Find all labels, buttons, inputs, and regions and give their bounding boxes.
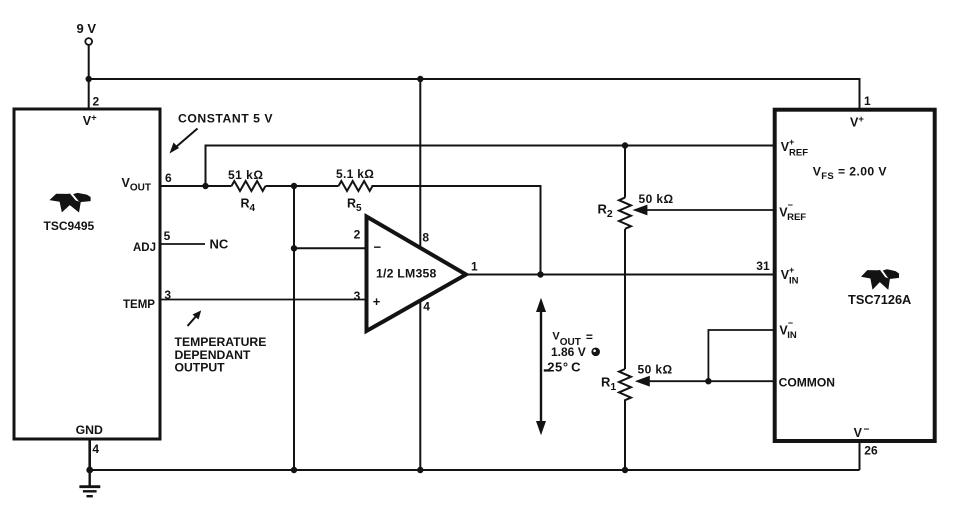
node VOUT riser junction [202, 183, 208, 189]
svg-text:51 kΩ: 51 kΩ [228, 168, 263, 182]
wire 9V to top rail [88, 45, 90, 79]
wire inverting node to ground rail [293, 186, 295, 470]
svg-text:8: 8 [422, 230, 429, 244]
svg-text:2: 2 [354, 228, 361, 242]
svg-text:1.86 V: 1.86 V [551, 345, 586, 359]
node ground junction [86, 467, 93, 474]
wire to op-amp pin 2 [294, 247, 367, 249]
svg-text:31: 31 [756, 259, 770, 273]
label TEMPERATURE DEPENDANT OUTPUT [175, 335, 267, 375]
ground [79, 470, 100, 496]
measurement arrow VOUT [536, 298, 546, 436]
svg-text:4: 4 [92, 442, 99, 456]
potentiometer R1 50k [601, 363, 775, 401]
node feedback output junction [537, 271, 543, 277]
svg-text:OUTPUT: OUTPUT [175, 361, 226, 375]
IC U1 TSC9495 [14, 109, 160, 439]
node R4 R5 junction [291, 183, 297, 189]
wire bottom ground rail [90, 469, 860, 471]
svg-text:CONSTANT 5 V: CONSTANT 5 V [178, 112, 273, 126]
svg-text:TEMPERATURE: TEMPERATURE [175, 335, 267, 349]
wire top rail [89, 79, 860, 110]
arrow to constant 5V node [170, 129, 198, 154]
svg-text:TEMP: TEMP [123, 299, 155, 311]
node VIN- COMMON junction [705, 378, 711, 384]
wire pin 2 of U1 [88, 79, 90, 110]
wire VOUT lead [161, 185, 232, 187]
wire R2 R1 chain [624, 146, 626, 471]
wire feedback R5 to output [372, 186, 541, 275]
wire op-amp output to VIN+ [466, 274, 775, 276]
node ground rail pin4 [417, 467, 423, 473]
node R2 top junction [622, 142, 628, 148]
label VOUT value [544, 330, 600, 375]
svg-text:9 V: 9 V [77, 21, 97, 36]
wire pin 26 stub [859, 441, 861, 470]
IC U3 TSC7126A [775, 110, 935, 441]
op-amp U2 1/2 LM358 [367, 217, 467, 332]
svg-text:1: 1 [471, 259, 478, 273]
svg-text:6: 6 [165, 171, 172, 185]
resistor R4 51k [228, 168, 266, 214]
svg-text:+: + [373, 294, 381, 309]
node ground rail R45 [291, 467, 297, 473]
svg-text:50 kΩ: 50 kΩ [639, 192, 674, 206]
wire TEMP to op-amp pin 3 [161, 299, 367, 301]
node 9V rail junction [86, 76, 92, 82]
resistor R5 5.1k [336, 167, 374, 214]
svg-text:50 kΩ: 50 kΩ [638, 363, 673, 377]
svg-text:−: − [374, 240, 382, 255]
svg-text:1: 1 [864, 94, 871, 108]
node ground rail R1 [622, 467, 628, 473]
svg-text:1/2 LM358: 1/2 LM358 [376, 267, 437, 281]
svg-text:3: 3 [354, 289, 361, 303]
svg-text:TSC9495: TSC9495 [44, 219, 95, 233]
logo U1 [49, 193, 90, 213]
logo U3 [861, 269, 899, 290]
svg-text:2: 2 [93, 94, 100, 108]
svg-text:5.1 kΩ: 5.1 kΩ [336, 167, 374, 181]
wire ADJ to NC [161, 243, 206, 245]
svg-text:GND: GND [76, 423, 103, 437]
node pin8 top rail junction [417, 76, 423, 82]
potentiometer R2 50k [598, 192, 775, 229]
svg-text:TSC7126A: TSC7126A [848, 292, 911, 307]
svg-text:NC: NC [210, 236, 229, 251]
wire GND pin stub [88, 439, 91, 470]
battery terminal 9V [77, 21, 97, 45]
svg-text:COMMON: COMMON [779, 376, 835, 390]
svg-text:26: 26 [864, 443, 878, 457]
svg-text:5: 5 [164, 229, 171, 243]
wire constant 5V to VREF+ [206, 146, 775, 187]
wire VIN- to COMMON junction [708, 330, 774, 381]
wire op-amp power pins 8 and 4 [419, 79, 421, 470]
wire R4 to R5 [266, 185, 339, 187]
svg-text:ADJ: ADJ [133, 242, 156, 254]
node pin2 junction [291, 245, 297, 251]
arrow temperature output pointer [188, 310, 202, 326]
svg-text:25°C: 25°C [547, 360, 581, 375]
svg-text:4: 4 [423, 300, 430, 314]
